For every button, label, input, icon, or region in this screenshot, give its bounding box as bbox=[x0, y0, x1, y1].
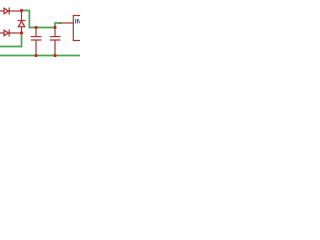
svg-text:IN: IN bbox=[75, 19, 80, 26]
